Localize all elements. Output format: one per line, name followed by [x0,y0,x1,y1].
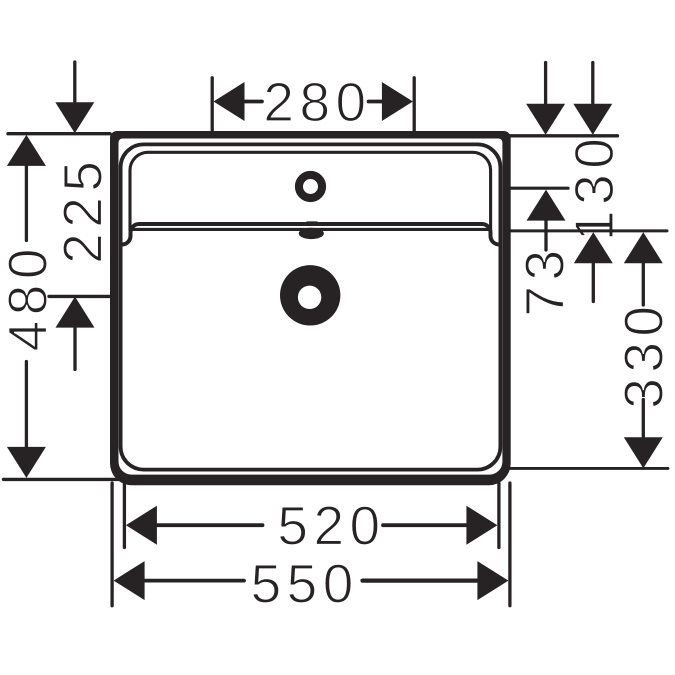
dimension 520 left extension line [123,483,126,548]
dimension 480 top extension line [8,132,110,135]
faucet center extension line [511,187,568,190]
dimension 130 top arrowhead [573,104,612,135]
faucet hole [299,175,322,198]
dimension 73 stem [544,221,547,250]
dimension 330 top arrowhead [624,232,663,263]
overflow slot mark [306,221,318,224]
overflow [299,228,324,239]
right top extension line [507,134,618,137]
dimension 520 left arrowhead [126,506,157,545]
dimension 520 line left stub [157,523,263,527]
dimension 480 upper stem [25,166,28,241]
svg-text:520: 520 [277,495,385,557]
svg-text:550: 550 [251,553,359,615]
drain [280,265,340,325]
dimension 130 stem [592,263,595,301]
dimension 520 right arrowhead [466,506,497,545]
dimension 480 lower stem [25,362,28,448]
svg-text:280: 280 [263,71,371,133]
dimension 280 right extension line [413,78,416,133]
washbasin deck inner line [130,152,491,229]
dimension 550 right arrowhead [477,561,508,600]
dimension 330 bottom arrowhead [624,437,663,468]
bottom right extension line [508,467,668,470]
dimension 480 bottom extension line [4,478,144,481]
dimension 550 right extension line [508,483,511,606]
dimension 480 top arrowhead [7,135,46,166]
dimension 73 top arrowhead [526,104,565,135]
dimension 550 left arrowhead [114,561,145,600]
svg-text:73: 73 [513,244,575,316]
dimension 280 line right stub [369,100,383,104]
ledge extension line [506,229,667,232]
dimension 550 line left stub [145,579,244,583]
dimension 280 left arrowhead [214,82,245,121]
dimension 225 top arrowhead [55,102,94,133]
dimension 550 left extension line [110,483,113,606]
dimension 280 left extension line [211,78,214,133]
drain hole [298,286,321,309]
svg-text:225: 225 [52,156,114,264]
dimension 330 upper stem [642,263,645,305]
dimension 130 upper stem [591,63,594,104]
washbasin inner rim line [121,144,501,469]
dimension 73 upper stem [544,63,547,104]
dimension 73 up arrowhead [527,190,566,221]
dimension 225 bottom arrowhead [56,297,95,328]
basin ledge front edge [122,224,499,245]
dimension 550 line right stub [363,578,478,582]
dimension 225 upper stem [73,62,76,102]
dimension 520 right extension line [497,483,500,548]
drain center extension line [49,295,110,298]
dimension 480 bottom arrowhead [7,447,46,478]
svg-text:130: 130 [563,133,625,241]
dimension 330 lower stem [642,400,645,438]
washbasin outer rim [110,131,511,485]
dimension 280 right arrowhead [382,82,413,121]
dimension 280 line left stub [245,100,263,104]
dimension 130 bottom arrowhead [574,232,613,263]
svg-text:330: 330 [613,300,675,408]
dimension 520 line right stub [383,523,466,527]
dimension 225 lower stem [73,328,76,370]
